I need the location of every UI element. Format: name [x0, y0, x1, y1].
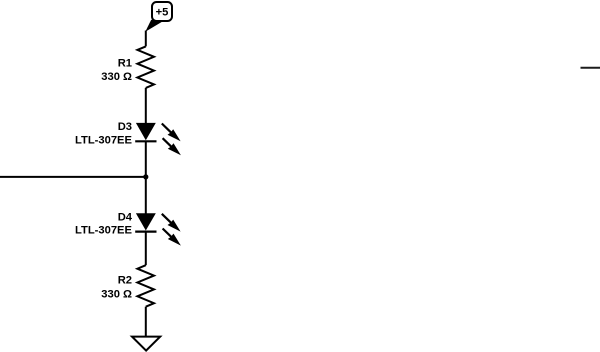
wire R2 to ground [145, 307, 147, 337]
resistor R1 [137, 46, 154, 88]
resistor R2 [137, 265, 154, 307]
LED D4 [135, 213, 181, 245]
wire R1 to D3 [145, 88, 147, 124]
svg-text:+5: +5 [156, 7, 169, 19]
wire flag to R1 [145, 31, 147, 47]
svg-text:D3: D3 [118, 121, 132, 133]
svg-text:D4: D4 [118, 211, 133, 223]
svg-text:330 Ω: 330 Ω [101, 71, 132, 83]
junction [143, 174, 148, 179]
wire left branch [0, 176, 146, 178]
LED D3 [135, 123, 181, 155]
svg-text:R2: R2 [118, 275, 132, 287]
svg-text:LTL-307EE: LTL-307EE [75, 134, 133, 146]
svg-text:LTL-307EE: LTL-307EE [75, 225, 133, 237]
node +5 flag [145, 2, 172, 32]
ground [132, 337, 160, 351]
wire stub right edge [581, 67, 600, 69]
wire D3 to D4 [145, 141, 147, 213]
svg-text:330 Ω: 330 Ω [101, 288, 132, 300]
svg-text:R1: R1 [118, 57, 132, 69]
wire D4 to R2 [145, 232, 147, 266]
